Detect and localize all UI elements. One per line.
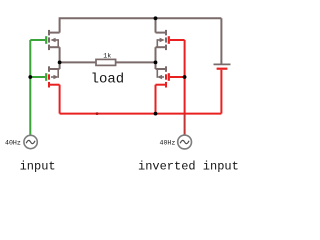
transistor upper-left MOSFET xyxy=(49,30,60,63)
battery B1 xyxy=(214,18,231,113)
svg-text:40Hz: 40Hz xyxy=(5,140,21,147)
wire gate lead lower-right (red) xyxy=(170,76,185,78)
gate bar lower-right (red) xyxy=(168,73,170,81)
wire inverted-input column below rail (dark red) xyxy=(184,114,186,136)
node load left junction xyxy=(58,61,62,65)
wire bottom negative rail (red) xyxy=(60,113,222,115)
node load right junction xyxy=(154,61,158,65)
gate bar upper-left (green) xyxy=(45,36,47,44)
node input gate junction xyxy=(28,75,32,79)
AC source inverted input (40Hz) xyxy=(178,135,192,149)
svg-text:40Hz: 40Hz xyxy=(160,140,176,147)
svg-text:1k: 1k xyxy=(103,53,111,60)
node top junction xyxy=(154,16,158,20)
wire gate lead lower-left (green) xyxy=(30,76,45,78)
resistor load 1k box xyxy=(96,59,116,65)
wire middle rail right xyxy=(116,61,156,63)
wire gate lead upper-left (green) xyxy=(30,39,45,41)
wire gate lead upper-right (red) xyxy=(170,39,185,41)
svg-text:load: load xyxy=(91,72,125,88)
node inverted gate junction xyxy=(183,75,187,79)
transistor upper-right MOSFET xyxy=(156,30,167,63)
wire right column drain drop xyxy=(155,18,157,32)
gate bar lower-left (green) xyxy=(45,73,47,81)
AC source input (40Hz) xyxy=(24,135,37,148)
wire inverted-input column (red) xyxy=(184,40,186,114)
gate bar upper-right (red) xyxy=(168,36,170,44)
wire green input column xyxy=(29,40,31,135)
node bottom rail junction xyxy=(154,112,158,116)
transistor lower-right MOSFET xyxy=(156,62,167,113)
svg-text:inverted input: inverted input xyxy=(138,159,239,173)
wire middle rail left xyxy=(60,61,96,63)
wire top rail xyxy=(60,18,222,32)
svg-text:input: input xyxy=(20,159,56,173)
node rail mid dot xyxy=(96,112,99,115)
transistor lower-left MOSFET xyxy=(49,62,60,113)
